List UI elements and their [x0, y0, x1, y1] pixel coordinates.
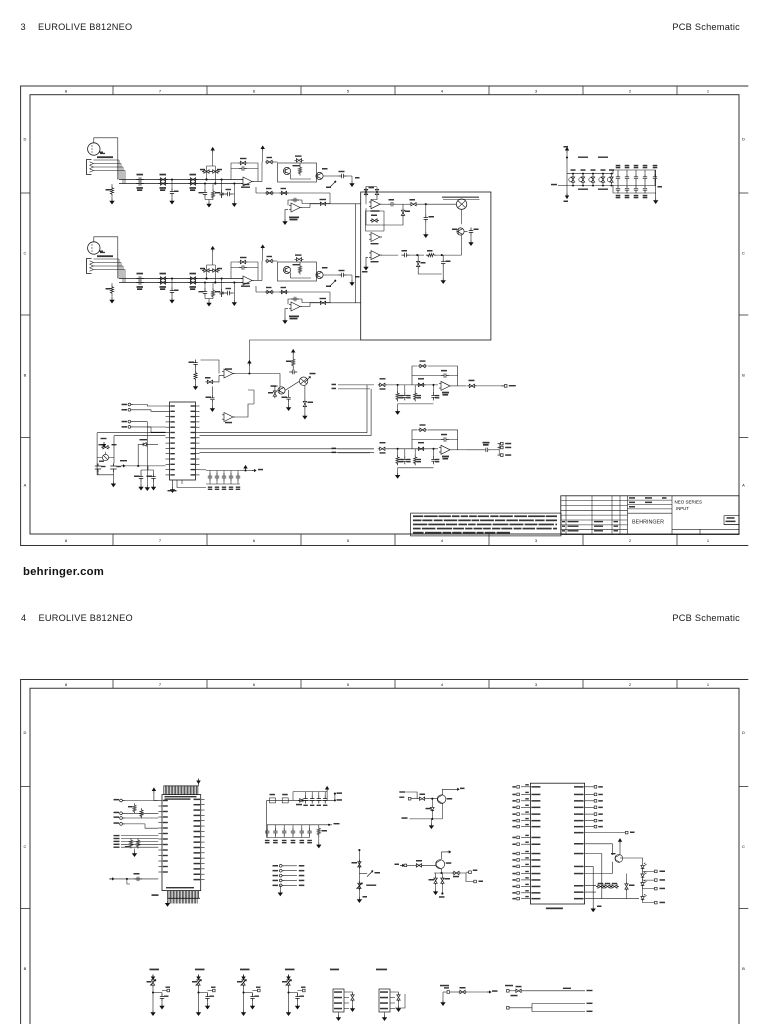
termination after cap: [347, 274, 353, 276]
frame row ticks: [21, 192, 30, 194]
wires connector to bus: [94, 259, 126, 270]
U11 left pins: [521, 786, 530, 788]
trim pot resistor: [287, 978, 290, 987]
U11 right pins upper: [585, 786, 595, 788]
op-amp IC2A: [241, 276, 254, 285]
junction qa: [427, 798, 438, 800]
input capacitor pair C2: [136, 276, 144, 280]
stage output wire: [452, 449, 467, 451]
shunt capacitor to ground 1: [171, 277, 173, 279]
shunt cluster cap B: [221, 178, 223, 180]
fuse F1: [270, 798, 276, 803]
frame column ticks top: [112, 86, 114, 95]
rail down: [266, 800, 268, 837]
svg-text:C: C: [24, 844, 27, 849]
input terminal 1: [120, 799, 125, 802]
buffer feedback: [288, 299, 302, 304]
LED resistors 220: [596, 885, 605, 888]
-15V rail arrow: [565, 194, 568, 199]
+15V rail arrow: [565, 148, 568, 153]
wire op-amp output up: [254, 181, 262, 183]
MAIN output terminal: [501, 385, 507, 388]
title block border: [561, 496, 739, 535]
wire op-amp output up: [254, 280, 262, 282]
svg-text:3: 3: [535, 89, 538, 94]
drawing frame inner border: [30, 95, 739, 534]
svg-text:D: D: [742, 137, 745, 142]
svg-text:BEHRINGER: BEHRINGER: [632, 520, 664, 526]
top branch: [293, 792, 327, 801]
svg-text:1: 1: [707, 538, 710, 543]
footer behringer.com: [23, 566, 104, 578]
trim pot wire down: [288, 987, 290, 1010]
series resistor pair R2a: [159, 277, 168, 280]
trim pot cap branch: [199, 992, 208, 994]
return resistor 1: [265, 191, 274, 194]
transistor Q7: [278, 387, 285, 394]
svg-text:C: C: [742, 844, 745, 849]
regulator row: [571, 175, 574, 184]
trim pot ground: [197, 1010, 201, 1015]
buffer ground: [285, 309, 288, 318]
return resistor 1: [265, 290, 274, 293]
U11 right lower wires: [585, 844, 639, 899]
transistor Q1b: [316, 172, 323, 179]
bias resistor right: [625, 882, 628, 891]
lp feedback resistor: [417, 260, 420, 269]
feedback capacitor: [239, 265, 247, 269]
feedback resistor hp: [401, 208, 404, 217]
svg-text:D: D: [24, 730, 27, 735]
volume pot lower: [358, 881, 361, 890]
trim pot wire down: [243, 987, 245, 1010]
trim pot terminal: [253, 991, 256, 993]
trim pot feed: [151, 975, 154, 980]
trim pot resistor: [197, 978, 200, 987]
stage shunt network: [397, 384, 399, 386]
terminal wires: [133, 405, 165, 427]
svg-text:2: 2: [629, 682, 632, 687]
power header label: [505, 985, 513, 987]
feedback resistor: [231, 262, 239, 279]
resistor to +15 over Q8: [292, 350, 295, 355]
wire vca emitter: [461, 209, 463, 224]
input terminal 2: [120, 812, 125, 815]
wires connector to bus: [94, 160, 126, 171]
svg-text:B: B: [742, 373, 745, 378]
audio input terminals: [128, 403, 133, 406]
trim pot circle: [102, 454, 108, 460]
trim pot feed: [242, 975, 245, 980]
wire buffer out: [302, 306, 310, 308]
trim pot resistor: [242, 978, 245, 987]
trim pot terminal: [298, 991, 301, 993]
U10 comb power arrow: [198, 784, 200, 786]
svg-text:C: C: [24, 251, 27, 256]
notes text block: [411, 513, 561, 536]
VCA cell Q5: [456, 199, 466, 209]
U10 +5V: [152, 788, 155, 793]
power input rail: [267, 799, 335, 801]
bypass cap row: [206, 470, 240, 472]
transistor Q8: [299, 377, 307, 385]
svg-text:A: A: [24, 483, 27, 488]
svg-text:8: 8: [65, 89, 68, 94]
svg-text:5: 5: [347, 538, 350, 543]
svg-text:C: C: [742, 251, 745, 256]
XLR connector X2: [88, 242, 100, 254]
svg-text:B: B: [742, 966, 745, 971]
feedback resistor: [231, 163, 239, 180]
drawing frame inner border: [30, 688, 739, 1024]
cap bank ground: [655, 170, 657, 198]
svg-text:3: 3: [535, 538, 538, 543]
bus pair to sub: [200, 448, 375, 450]
power rails: [567, 173, 613, 175]
stage wire: [387, 448, 438, 450]
trim pot resistor: [151, 978, 154, 987]
trim pot feed: [287, 975, 290, 980]
svg-text:3: 3: [535, 682, 538, 687]
divider resistor qb1: [434, 876, 437, 885]
svg-text:D: D: [742, 730, 745, 735]
+15 bottom arrow: [244, 469, 246, 471]
page 3 header right: [672, 22, 740, 32]
XLR connector X1: [88, 143, 100, 155]
resistor above cell: [295, 258, 304, 261]
U3C ground: [366, 257, 368, 264]
input step wire qa: [406, 792, 418, 799]
cap wires: [141, 466, 154, 474]
trim caps: [95, 464, 101, 473]
svg-text:6: 6: [253, 682, 256, 687]
transistor Q6: [457, 228, 464, 235]
page 4 header title: [39, 613, 133, 623]
svg-text:B: B: [24, 966, 27, 971]
low-pass resistor: [426, 254, 436, 257]
wire down to buffer: [302, 193, 330, 204]
wire buffer out: [302, 207, 310, 209]
volume resistor: [358, 860, 361, 869]
collector out qa: [442, 789, 455, 795]
trim pot cap branch: [289, 992, 298, 994]
header ground: [384, 1012, 386, 1015]
trim pot wire down: [152, 987, 154, 1010]
neg supply qb: [441, 885, 443, 892]
decoupling caps bottom row: [613, 192, 656, 194]
terminal bus ground: [146, 427, 148, 485]
svg-text:7: 7: [159, 89, 162, 94]
connector pin list: [273, 865, 279, 867]
return resistor 2: [280, 191, 289, 194]
svg-text:D: D: [24, 137, 27, 142]
channel join wire: [355, 204, 357, 303]
stage input wires: [338, 448, 374, 450]
buffer ground: [285, 210, 288, 219]
wire down to buffer: [302, 292, 330, 303]
U10 bottom comb 2: [168, 898, 170, 903]
stage input resistor: [378, 383, 387, 386]
trim pot wire down: [198, 987, 200, 1010]
U10 top pin comb: [164, 785, 199, 787]
bus wires group: [121, 835, 158, 837]
hang rc left: [193, 360, 197, 368]
bleed resistor: [317, 827, 320, 837]
+15V supply vca: [248, 361, 251, 366]
inductor L1: [282, 798, 288, 803]
reset stub: [127, 879, 130, 884]
input terminal qb: [400, 864, 404, 866]
sense out arrow: [467, 991, 487, 993]
terminal wires U10: [125, 813, 158, 828]
stage op-amp: [439, 445, 452, 454]
trim pot label: [195, 969, 205, 971]
page 3 header title: [38, 22, 132, 32]
sense resistor: [458, 990, 467, 993]
svg-text:1: 1: [707, 682, 710, 687]
svg-text:7: 7: [159, 538, 162, 543]
high-pass capacitor: [380, 203, 388, 205]
main signal wire pair: [119, 179, 243, 181]
title mid column: [627, 496, 629, 535]
header connector body: [379, 989, 390, 1012]
output resistor: [467, 384, 476, 387]
frame column ticks bottom: [112, 534, 114, 546]
gain pot arrow: [330, 181, 336, 187]
mute control terminal: [121, 465, 125, 467]
svg-text:6: 6: [253, 538, 256, 543]
wire vca to low path: [461, 235, 463, 255]
input terminal 4: [120, 823, 125, 826]
trim pot feed arrow: [102, 442, 105, 447]
svg-text:8: 8: [65, 538, 68, 543]
return wire: [255, 187, 257, 193]
sub output capacitor: [483, 448, 491, 452]
cap below U4A: [210, 395, 214, 403]
svg-text:6: 6: [253, 89, 256, 94]
transistor Q12: [615, 855, 623, 863]
wire to box bottom: [249, 339, 360, 341]
transistor cell box Q2a: [278, 262, 317, 281]
base resistor qb: [415, 864, 424, 867]
U11 ground: [592, 899, 594, 907]
return resistor 2: [280, 290, 289, 293]
power header terminals: [507, 990, 510, 993]
+B arrow: [326, 787, 329, 792]
gain resistor: [265, 259, 274, 262]
junction lp: [416, 254, 418, 256]
bias resistors to +15V: [211, 247, 214, 252]
rail left stub: [558, 185, 567, 187]
series resistor to crossover: [319, 301, 328, 304]
svg-text:INPUT: INPUT: [676, 506, 689, 511]
shunt cluster cap C: [221, 194, 223, 198]
header link wire: [395, 994, 405, 1008]
feedback capacitor: [239, 166, 247, 170]
op-amp supply +15V: [261, 245, 264, 250]
shunt capacitor to ground 1: [171, 178, 173, 180]
svg-text:4: 4: [441, 682, 444, 687]
U10 top inner labels: [165, 796, 197, 797]
trim resistor: [101, 446, 110, 449]
supply caps left 2: [151, 474, 155, 482]
wire U4A out: [235, 373, 280, 375]
resistor below Q7: [273, 389, 276, 398]
trim ground: [112, 475, 114, 482]
high-pass resistor: [396, 203, 409, 205]
header connector label: [330, 969, 339, 971]
U11 +5V net: [585, 832, 626, 834]
gain resistor: [265, 160, 274, 163]
U10 left pins: [158, 800, 162, 802]
op-amp U3C: [369, 251, 382, 260]
net arrow right: [252, 470, 256, 472]
resistor above cell: [295, 159, 304, 162]
driver IC U11 body: [530, 783, 584, 904]
trim pot cap branch: [244, 992, 253, 994]
transistor cell box Q1a: [278, 163, 317, 182]
op-amp U4B: [222, 413, 235, 422]
power terminals: [334, 793, 336, 795]
title bottom row: [672, 528, 739, 530]
zener D1: [141, 443, 148, 447]
return wire: [255, 286, 257, 292]
bus pair to main: [200, 432, 368, 434]
output terminals qb: [461, 872, 474, 881]
sense terminal: [444, 987, 449, 988]
op-amp IC1B: [289, 203, 302, 212]
shunt cluster resistor: [212, 283, 214, 290]
page 4 header right: [672, 613, 740, 623]
op-amp IC2B: [289, 302, 302, 311]
series resistor pair R1a: [159, 178, 168, 181]
U5 right pins: [196, 405, 200, 407]
op-amp U4A: [222, 369, 235, 378]
op-amp U3A: [369, 200, 382, 209]
power resistor: [509, 990, 514, 992]
stage series resistor: [417, 447, 426, 450]
series resistor qb: [452, 871, 461, 874]
pot arrow vca: [305, 377, 311, 383]
transistor QB: [436, 860, 445, 869]
header connector body: [333, 989, 344, 1012]
svg-text:5: 5: [347, 89, 350, 94]
U5 ground: [172, 480, 174, 487]
reservoir caps: [305, 792, 307, 796]
volume ground: [357, 897, 361, 902]
diode qa: [431, 805, 435, 812]
low-pass wire: [381, 254, 398, 256]
pullup resistors U10: [133, 804, 136, 814]
header ground: [338, 1012, 340, 1015]
crossover title: [442, 197, 479, 198]
input ground loop wire: [94, 138, 118, 180]
buffer labels: [289, 217, 299, 219]
resistor right below Q8: [303, 400, 306, 409]
status LEDs: [641, 863, 647, 871]
stage input wires: [338, 384, 374, 386]
sense ground: [441, 1000, 445, 1005]
U10 ground: [167, 898, 169, 901]
trim network left rail: [96, 433, 98, 475]
termination after cap: [347, 175, 353, 177]
jack connector J2: [87, 259, 92, 274]
gain pot arrow: [330, 280, 336, 286]
output capacitor: [339, 273, 347, 277]
lp shunt capacitor: [441, 259, 445, 267]
low-pass capacitor: [402, 253, 410, 257]
page 3 header number: [21, 22, 26, 32]
input resistor U4A: [206, 380, 215, 383]
reset line: [126, 878, 128, 880]
svg-text:4: 4: [441, 89, 444, 94]
stage feedback cap: [441, 373, 449, 377]
series resistor pair R1b: [189, 178, 198, 181]
stage input resistor: [378, 447, 387, 450]
U10 right pins: [201, 798, 205, 800]
volume net top: [358, 849, 360, 851]
shunt cluster resistor: [212, 184, 214, 191]
base resistor qa: [418, 797, 427, 800]
frame column ticks top: [112, 680, 114, 689]
supply caps left 1: [139, 474, 143, 482]
op-amp IC1A: [241, 177, 254, 186]
svg-text:A: A: [742, 483, 745, 488]
emitter node qb: [434, 869, 453, 873]
series resistor to crossover: [319, 202, 328, 205]
shunt cluster cap A: [204, 182, 206, 184]
interstage network: [366, 211, 385, 231]
header connector label: [376, 969, 387, 971]
divider resistor qb2: [441, 876, 444, 885]
stage feedback cap: [441, 437, 449, 441]
revision table: [561, 500, 628, 502]
stage op-amp: [439, 381, 452, 390]
transistor Q2b: [316, 271, 323, 278]
trim pot terminal: [208, 991, 211, 993]
trim pot feed: [197, 975, 200, 980]
input ground loop wire: [94, 237, 118, 279]
Q12 supply: [619, 844, 621, 855]
U5 bottom stubs: [177, 480, 206, 488]
header pull resistor: [397, 993, 400, 1002]
output capacitor: [339, 174, 347, 178]
VCA net label: [443, 198, 480, 200]
switch IC U5 body: [170, 402, 196, 480]
bus pair left extension: [97, 432, 165, 434]
svg-text:1: 1: [707, 89, 710, 94]
svg-text:4: 4: [441, 538, 444, 543]
op-amp U3B: [369, 233, 382, 242]
input terminal 3: [120, 817, 125, 820]
buffer feedback: [288, 200, 302, 205]
diode D10: [298, 799, 305, 803]
wire to output cap: [323, 175, 339, 177]
trim pot ground: [151, 1010, 155, 1015]
input capacitor pair C1: [136, 177, 144, 181]
stage series resistor: [417, 383, 426, 386]
U5 left pins: [166, 405, 170, 407]
net labels qa: [399, 791, 405, 792]
buffer labels: [289, 316, 299, 318]
frame row ticks: [21, 786, 30, 788]
svg-text:NEO SERIES: NEO SERIES: [675, 500, 703, 505]
wires to switch IC: [201, 360, 255, 404]
decoupling caps top row: [613, 169, 656, 171]
stage feedback resistor: [412, 366, 458, 386]
drawing frame outer border: [21, 680, 749, 1024]
emitter rail qa: [410, 804, 443, 819]
